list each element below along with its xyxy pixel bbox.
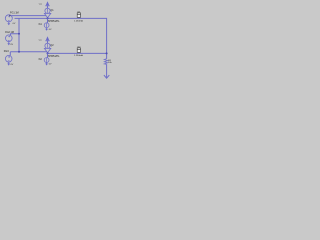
svg-text:FG2 1M: FG2 1M (5, 31, 14, 34)
ground S1 (8, 22, 10, 24)
svg-text:FG1 1M: FG1 1M (10, 11, 19, 14)
wire S3 top stub (9, 52, 11, 56)
device D1 circle (45, 8, 50, 13)
wire base1 (S1 top to D1 input) (11, 15, 46, 17)
device D2 circle (45, 43, 50, 48)
source S1 (5, 15, 12, 22)
svg-text:2N5551/PL: 2N5551/PL (47, 55, 60, 58)
ground arrow bottom right (104, 75, 109, 78)
meter M2 on rail2 (77, 48, 80, 52)
node S1 plus terminal (9, 15, 11, 17)
ground S3 (8, 62, 10, 64)
power VDD2 arrow (46, 36, 49, 40)
node junction V1/S2 (18, 33, 20, 35)
background (0, 0, 120, 87)
current source I2 (47, 53, 49, 57)
meter M1 on rail1 (77, 13, 80, 17)
node dot rail2/right vertical (106, 52, 108, 54)
power VDD1 arrow (46, 1, 49, 5)
svg-text:2N5551/PL: 2N5551/PL (47, 20, 60, 23)
source S3 (5, 55, 12, 62)
wire rail2 (D2 emitter to right vertical) (48, 52, 107, 54)
wire rail1 (emitter rail, right corner, down right vertical) (15, 18, 107, 58)
current source I1 (47, 18, 49, 22)
ground S2 (8, 42, 10, 44)
wire S2 top stub (11, 34, 20, 36)
ground arrow I1 (45, 29, 48, 31)
resistor R1 (104, 59, 107, 65)
wire base2 (S3 / V1 to D2 input) (10, 51, 46, 53)
wire below resistor (106, 64, 108, 77)
wire vertical V1 (rail1 down to base2) (18, 18, 20, 51)
node dot emitter2/rail2 (47, 52, 49, 54)
source S2 (6, 35, 13, 42)
device D1 triangle (44, 13, 50, 17)
device D2 triangle (44, 48, 50, 52)
ground arrow I2 (45, 64, 48, 66)
node dot emitter1/rail1 (47, 17, 49, 19)
node junction V1/base2 (18, 51, 20, 53)
